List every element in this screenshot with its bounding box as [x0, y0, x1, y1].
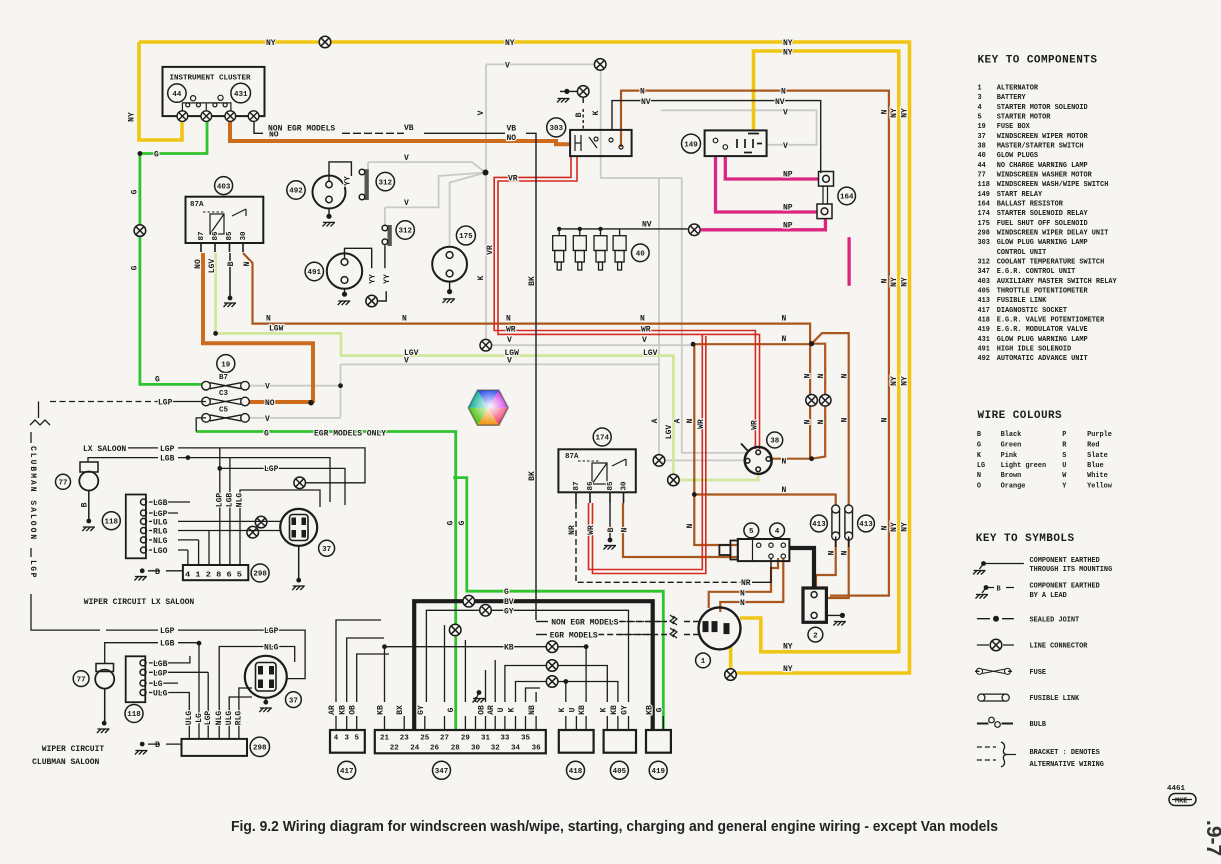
svg-text:N: N	[740, 589, 745, 598]
svg-text:LINE CONNECTOR: LINE CONNECTOR	[1030, 643, 1089, 651]
svg-text:G: G	[131, 189, 140, 194]
svg-text:STARTER MOTOR: STARTER MOTOR	[997, 114, 1052, 122]
svg-text:NY: NY	[783, 643, 793, 652]
svg-text:NY: NY	[128, 112, 137, 122]
svg-text:K: K	[477, 275, 486, 280]
svg-text:KB: KB	[610, 705, 619, 715]
svg-text:LGB: LGB	[226, 493, 235, 508]
svg-text:33: 33	[500, 735, 510, 743]
svg-text:174: 174	[595, 435, 609, 443]
svg-text:LGB: LGB	[153, 660, 168, 669]
svg-text:23: 23	[400, 735, 410, 743]
svg-text:LGB: LGB	[160, 640, 175, 649]
svg-text:BK: BK	[528, 471, 537, 481]
svg-text:GLOW PLUGS: GLOW PLUGS	[997, 152, 1038, 160]
svg-text:NR: NR	[741, 579, 751, 588]
svg-text:B: B	[977, 431, 981, 439]
svg-text:NLG: NLG	[264, 644, 279, 653]
svg-text:LGP: LGP	[264, 627, 279, 636]
svg-text:347: 347	[978, 268, 990, 276]
svg-text:22: 22	[390, 745, 400, 753]
svg-text:G: G	[447, 520, 456, 525]
svg-text:N: N	[782, 457, 787, 466]
svg-text:NY: NY	[901, 108, 910, 118]
svg-text:B: B	[81, 502, 90, 507]
svg-text:175: 175	[459, 233, 473, 241]
svg-text:V: V	[404, 199, 409, 208]
svg-text:C5: C5	[219, 407, 229, 415]
svg-text:N: N	[841, 373, 850, 378]
svg-text:303: 303	[549, 125, 563, 133]
svg-text:26: 26	[430, 745, 440, 753]
svg-text:VB: VB	[404, 124, 414, 133]
svg-text:AUXILIARY MASTER SWITCH RELAY: AUXILIARY MASTER SWITCH RELAY	[997, 278, 1118, 286]
svg-text:1: 1	[701, 658, 706, 666]
svg-text:G: G	[154, 151, 159, 160]
svg-text:NO: NO	[194, 259, 203, 269]
svg-text:N: N	[686, 418, 695, 423]
svg-text:Red: Red	[1087, 441, 1099, 449]
svg-text:N: N	[621, 527, 630, 532]
svg-text:N: N	[686, 523, 695, 528]
svg-text:NY: NY	[783, 665, 793, 674]
svg-text:Fig. 9.2 Wiring diagram for w: Fig. 9.2 Wiring diagram for windscreen w…	[231, 819, 998, 835]
svg-text:NV: NV	[642, 221, 652, 230]
svg-text:Purple: Purple	[1087, 431, 1112, 439]
svg-text:LGP: LGP	[28, 560, 37, 579]
svg-text:40: 40	[978, 152, 986, 160]
svg-text:AR: AR	[328, 705, 337, 715]
svg-text:85: 85	[607, 481, 615, 491]
svg-text:VR: VR	[486, 245, 495, 255]
svg-text:87A: 87A	[565, 453, 579, 461]
svg-text:NY: NY	[783, 39, 793, 48]
svg-text:KB: KB	[504, 644, 514, 653]
svg-text:Slate: Slate	[1087, 452, 1108, 460]
svg-text:YY: YY	[343, 176, 352, 186]
svg-text:.9-7: .9-7	[1202, 820, 1221, 856]
svg-text:V: V	[507, 357, 512, 366]
svg-text:FUSIBLE LINK: FUSIBLE LINK	[997, 297, 1047, 305]
svg-text:N: N	[804, 419, 813, 424]
svg-text:B: B	[155, 741, 160, 750]
svg-text:AR: AR	[487, 705, 496, 715]
svg-text:164: 164	[978, 201, 990, 209]
svg-text:CLUBMAN SALOON: CLUBMAN SALOON	[28, 446, 37, 541]
svg-text:419: 419	[651, 768, 665, 776]
svg-text:KB: KB	[377, 705, 386, 715]
svg-text:K: K	[599, 707, 608, 712]
svg-text:149: 149	[684, 141, 698, 149]
svg-text:THROUGH ITS MOUNTING: THROUGH ITS MOUNTING	[1030, 566, 1113, 574]
svg-text:NV: NV	[775, 98, 785, 107]
svg-text:A: A	[674, 418, 683, 423]
svg-text:YY: YY	[383, 274, 392, 284]
svg-text:25: 25	[420, 735, 430, 743]
svg-text:5: 5	[978, 114, 982, 122]
svg-text:431: 431	[234, 91, 248, 99]
svg-text:G: G	[504, 588, 509, 597]
svg-text:LGV: LGV	[665, 425, 674, 440]
svg-text:HIGH IDLE SOLENOID: HIGH IDLE SOLENOID	[997, 346, 1071, 354]
svg-text:312: 312	[978, 259, 990, 267]
svg-text:491: 491	[978, 346, 990, 354]
svg-text:LGO: LGO	[153, 547, 168, 556]
svg-text:405: 405	[978, 288, 990, 296]
svg-text:413: 413	[859, 521, 873, 529]
svg-text:Blue: Blue	[1087, 462, 1104, 470]
svg-text:WINDSCREEN WASHER MOTOR: WINDSCREEN WASHER MOTOR	[997, 172, 1093, 180]
svg-text:NV: NV	[641, 98, 651, 107]
svg-text:NP: NP	[783, 171, 793, 180]
svg-text:2: 2	[813, 632, 818, 640]
svg-text:CLUBMAN SALOON: CLUBMAN SALOON	[32, 758, 99, 767]
svg-text:GY: GY	[621, 705, 630, 715]
svg-text:NB: NB	[528, 705, 537, 715]
svg-text:37: 37	[322, 546, 331, 554]
svg-text:ULG: ULG	[185, 711, 194, 726]
svg-text:ALTERNATIVE WIRING: ALTERNATIVE WIRING	[1030, 761, 1104, 769]
svg-text:27: 27	[440, 735, 449, 743]
svg-text:NY: NY	[266, 39, 276, 48]
svg-text:WINDSCREEN WIPER MOTOR: WINDSCREEN WIPER MOTOR	[997, 133, 1089, 141]
svg-text:V: V	[783, 109, 788, 118]
svg-text:431: 431	[978, 336, 990, 344]
svg-text:85: 85	[226, 231, 234, 241]
svg-text:BULB: BULB	[1030, 721, 1047, 729]
svg-text:WR: WR	[641, 326, 651, 335]
svg-text:312: 312	[379, 179, 393, 187]
svg-text:NON EGR MODELS: NON EGR MODELS	[551, 619, 618, 628]
svg-text:40: 40	[636, 251, 646, 259]
svg-text:175: 175	[978, 220, 990, 228]
svg-text:DIAGNOSTIC SOCKET: DIAGNOSTIC SOCKET	[997, 307, 1067, 315]
svg-text:V: V	[265, 383, 270, 392]
svg-text:COOLANT TEMPERATURE SWITCH: COOLANT TEMPERATURE SWITCH	[997, 259, 1105, 267]
svg-text:N: N	[880, 525, 889, 530]
svg-text:LG: LG	[153, 680, 163, 689]
svg-text:GLOW PLUG WARNING LAMP: GLOW PLUG WARNING LAMP	[997, 239, 1088, 247]
svg-text:NY: NY	[890, 277, 899, 287]
svg-text:19: 19	[221, 361, 231, 369]
svg-text:298: 298	[253, 571, 267, 579]
svg-text:VB: VB	[507, 125, 517, 134]
svg-text:N: N	[402, 315, 407, 324]
svg-text:KEY TO COMPONENTS: KEY TO COMPONENTS	[978, 55, 1098, 67]
svg-text:STARTER SOLENOID RELAY: STARTER SOLENOID RELAY	[997, 210, 1089, 218]
svg-text:B: B	[997, 585, 1001, 593]
svg-text:KEY TO SYMBOLS: KEY TO SYMBOLS	[976, 533, 1075, 545]
svg-text:413: 413	[812, 521, 826, 529]
svg-text:AUTOMATIC ADVANCE UNIT: AUTOMATIC ADVANCE UNIT	[997, 355, 1088, 363]
svg-text:21: 21	[380, 735, 390, 743]
svg-text:N: N	[880, 417, 889, 422]
svg-text:NO CHARGE WARNING LAMP: NO CHARGE WARNING LAMP	[997, 162, 1088, 170]
svg-text:86: 86	[212, 231, 220, 241]
svg-text:5: 5	[354, 735, 359, 743]
svg-text:87: 87	[573, 481, 581, 490]
svg-text:U: U	[568, 707, 577, 712]
svg-text:1: 1	[978, 85, 982, 93]
svg-text:Orange: Orange	[1001, 483, 1026, 491]
svg-text:NY: NY	[505, 39, 515, 48]
svg-text:V: V	[404, 357, 409, 366]
svg-text:ALTERNATOR: ALTERNATOR	[997, 85, 1039, 93]
svg-text:U: U	[497, 707, 506, 712]
svg-text:418: 418	[978, 317, 990, 325]
svg-text:NON EGR MODELS: NON EGR MODELS	[268, 125, 335, 134]
svg-text:N: N	[817, 373, 826, 378]
svg-text:OB: OB	[478, 705, 487, 715]
svg-text:LGB: LGB	[160, 455, 175, 464]
svg-text:LGP: LGP	[160, 445, 175, 454]
svg-text:19: 19	[978, 123, 986, 131]
svg-text:FUSE: FUSE	[1030, 669, 1047, 677]
svg-text:491: 491	[308, 269, 322, 277]
svg-text:347: 347	[435, 768, 449, 776]
svg-text:118: 118	[127, 711, 141, 719]
svg-text:NLG: NLG	[215, 711, 224, 726]
svg-text:V: V	[783, 142, 788, 151]
svg-text:NP: NP	[783, 204, 793, 213]
svg-text:WR: WR	[587, 525, 596, 535]
svg-text:N: N	[266, 315, 271, 324]
svg-text:MASTER/STARTER SWITCH: MASTER/STARTER SWITCH	[997, 143, 1084, 151]
svg-text:118: 118	[105, 518, 119, 526]
svg-text:37: 37	[978, 133, 986, 141]
svg-text:WR: WR	[751, 420, 760, 430]
svg-text:BATTERY: BATTERY	[997, 94, 1027, 102]
svg-text:4461: 4461	[1167, 785, 1186, 793]
svg-text:KB: KB	[646, 705, 655, 715]
svg-text:4 1 2 8 6 5: 4 1 2 8 6 5	[185, 572, 243, 580]
svg-text:N: N	[841, 417, 850, 422]
svg-text:4: 4	[978, 104, 982, 112]
svg-text:WR: WR	[506, 326, 516, 335]
svg-text:KB: KB	[578, 705, 587, 715]
svg-text:V: V	[642, 336, 647, 345]
svg-text:77: 77	[978, 172, 986, 180]
svg-text:38: 38	[770, 438, 780, 446]
svg-text:NY: NY	[901, 522, 910, 532]
svg-text:FUSE BOX: FUSE BOX	[997, 123, 1031, 131]
svg-text:EGR MODELS: EGR MODELS	[550, 632, 598, 641]
svg-text:77: 77	[77, 676, 86, 684]
svg-text:V: V	[507, 336, 512, 345]
svg-text:Light green: Light green	[1001, 462, 1047, 470]
svg-text:NY: NY	[890, 108, 899, 118]
svg-text:O: O	[977, 483, 981, 491]
svg-text:Black: Black	[1001, 431, 1022, 439]
svg-text:BY A LEAD: BY A LEAD	[1030, 592, 1067, 600]
svg-text:GY: GY	[417, 705, 426, 715]
svg-text:30: 30	[240, 231, 248, 241]
svg-text:77: 77	[58, 480, 67, 488]
svg-text:ULG: ULG	[153, 690, 168, 699]
svg-text:EGR MODELS ONLY: EGR MODELS ONLY	[314, 430, 386, 439]
svg-text:NLG: NLG	[236, 493, 245, 508]
svg-text:NY: NY	[890, 522, 899, 532]
svg-text:START RELAY: START RELAY	[997, 191, 1043, 199]
svg-text:E.G.R. VALVE POTENTIOMETER: E.G.R. VALVE POTENTIOMETER	[997, 317, 1105, 325]
svg-text:29: 29	[461, 735, 471, 743]
svg-text:N: N	[640, 88, 645, 97]
svg-text:35: 35	[521, 735, 531, 743]
svg-text:BV: BV	[504, 598, 514, 607]
svg-text:N: N	[977, 472, 981, 480]
svg-text:C3: C3	[219, 390, 229, 398]
svg-text:BRACKET : DENOTES: BRACKET : DENOTES	[1030, 749, 1100, 757]
svg-text:G: G	[264, 430, 269, 439]
svg-text:174: 174	[978, 210, 990, 218]
svg-text:INSTRUMENT CLUSTER: INSTRUMENT CLUSTER	[170, 74, 252, 82]
svg-text:405: 405	[613, 768, 627, 776]
svg-text:G: G	[447, 707, 456, 712]
svg-text:CONTROL UNIT: CONTROL UNIT	[997, 249, 1047, 257]
svg-text:OB: OB	[349, 705, 358, 715]
svg-text:WIPER CIRCUIT LX SALOON: WIPER CIRCUIT LX SALOON	[84, 598, 195, 607]
svg-text:NO: NO	[265, 399, 275, 408]
svg-text:B7: B7	[219, 374, 228, 382]
svg-text:BALLAST RESISTOR: BALLAST RESISTOR	[997, 201, 1064, 209]
svg-text:N: N	[817, 419, 826, 424]
svg-text:G: G	[977, 441, 981, 449]
svg-text:LGP: LGP	[204, 711, 213, 726]
svg-text:WINDSCREEN WIPER DELAY UNIT: WINDSCREEN WIPER DELAY UNIT	[997, 230, 1109, 238]
svg-text:3: 3	[978, 94, 982, 102]
svg-text:BK: BK	[528, 276, 537, 286]
svg-text:118: 118	[978, 181, 990, 189]
svg-text:E.G.R. CONTROL UNIT: E.G.R. CONTROL UNIT	[997, 268, 1076, 276]
svg-text:LGB: LGB	[153, 499, 168, 508]
svg-text:LGP: LGP	[158, 399, 173, 408]
svg-text:E.G.R. MODULATOR VALVE: E.G.R. MODULATOR VALVE	[997, 326, 1088, 334]
svg-text:NY: NY	[901, 376, 910, 386]
svg-text:149: 149	[978, 191, 990, 199]
svg-text:COMPONENT EARTHED: COMPONENT EARTHED	[1030, 557, 1100, 565]
svg-text:Yellow: Yellow	[1087, 483, 1113, 491]
svg-text:SEALED JOINT: SEALED JOINT	[1030, 616, 1080, 624]
svg-text:THROTTLE POTENTIOMETER: THROTTLE POTENTIOMETER	[997, 288, 1089, 296]
svg-text:298: 298	[253, 745, 267, 753]
svg-text:N: N	[782, 335, 787, 344]
svg-text:LGP: LGP	[153, 669, 168, 678]
svg-text:NY: NY	[901, 277, 910, 287]
svg-text:87A: 87A	[190, 201, 204, 209]
svg-text:VR: VR	[508, 175, 518, 184]
svg-text:3: 3	[344, 735, 349, 743]
svg-text:312: 312	[398, 228, 412, 236]
svg-text:N: N	[506, 315, 511, 324]
svg-text:G: G	[458, 520, 467, 525]
svg-text:164: 164	[840, 194, 854, 202]
svg-text:403: 403	[217, 183, 231, 191]
svg-text:Pink: Pink	[1001, 452, 1018, 460]
svg-text:N: N	[243, 261, 252, 266]
svg-text:LG: LG	[977, 462, 985, 470]
svg-text:303: 303	[978, 239, 990, 247]
svg-text:WIRE COLOURS: WIRE COLOURS	[978, 410, 1063, 422]
svg-text:KB: KB	[339, 705, 348, 715]
svg-text:NY: NY	[783, 49, 793, 58]
svg-text:492: 492	[978, 355, 990, 363]
svg-text:RLG: RLG	[235, 711, 244, 726]
svg-text:White: White	[1087, 472, 1108, 480]
svg-text:N: N	[841, 550, 850, 555]
svg-text:N: N	[828, 550, 837, 555]
svg-text:B: B	[155, 568, 160, 577]
svg-text:28: 28	[451, 745, 461, 753]
svg-text:STARTER MOTOR SOLENOID: STARTER MOTOR SOLENOID	[997, 104, 1088, 112]
svg-text:44: 44	[172, 91, 182, 99]
svg-text:N: N	[781, 88, 786, 97]
svg-text:LGW: LGW	[269, 325, 284, 334]
svg-text:38: 38	[978, 143, 986, 151]
svg-text:36: 36	[532, 745, 542, 753]
svg-text:LX SALOON: LX SALOON	[83, 445, 126, 454]
svg-text:ULG: ULG	[153, 518, 168, 527]
svg-text:GLOW PLUG WARNING LAMP: GLOW PLUG WARNING LAMP	[997, 336, 1088, 344]
svg-text:K: K	[558, 707, 567, 712]
svg-text:N: N	[740, 599, 745, 608]
svg-text:NR: NR	[568, 525, 577, 535]
svg-text:N: N	[880, 109, 889, 114]
svg-text:GY: GY	[504, 607, 514, 616]
svg-text:24: 24	[410, 745, 420, 753]
svg-text:LG: LG	[195, 713, 204, 723]
svg-text:298: 298	[978, 230, 990, 238]
svg-text:WINDSCREEN WASH/WIPE SWITCH: WINDSCREEN WASH/WIPE SWITCH	[997, 181, 1109, 189]
svg-text:417: 417	[340, 768, 354, 776]
svg-text:403: 403	[978, 278, 990, 286]
svg-text:34: 34	[511, 745, 521, 753]
svg-text:419: 419	[978, 326, 990, 334]
svg-text:413: 413	[978, 297, 990, 305]
svg-text:30: 30	[471, 745, 481, 753]
svg-text:V: V	[404, 154, 409, 163]
svg-text:Brown: Brown	[1001, 472, 1022, 480]
svg-text:NP: NP	[783, 222, 793, 231]
svg-text:30: 30	[621, 481, 629, 491]
svg-text:S: S	[1062, 452, 1066, 460]
svg-text:G: G	[131, 265, 140, 270]
svg-text:5: 5	[749, 528, 754, 536]
svg-text:87: 87	[198, 231, 206, 240]
svg-text:LGP: LGP	[264, 465, 279, 474]
svg-text:RLG: RLG	[153, 527, 168, 536]
svg-text:N: N	[804, 373, 813, 378]
svg-text:LGV: LGV	[208, 259, 217, 274]
svg-text:B: B	[227, 261, 236, 266]
svg-text:G: G	[155, 376, 160, 385]
svg-text:Green: Green	[1001, 441, 1022, 449]
svg-text:MKE: MKE	[1175, 798, 1187, 806]
svg-text:N: N	[640, 315, 645, 324]
svg-text:86: 86	[587, 481, 595, 491]
svg-text:LGV: LGV	[643, 349, 658, 358]
svg-text:BX: BX	[396, 705, 405, 715]
svg-text:V: V	[265, 415, 270, 424]
svg-text:P: P	[1062, 431, 1066, 439]
svg-text:FUEL SHUT OFF SOLENOID: FUEL SHUT OFF SOLENOID	[997, 220, 1088, 228]
svg-text:4: 4	[334, 735, 339, 743]
svg-text:G: G	[655, 707, 664, 712]
svg-text:31: 31	[481, 735, 491, 743]
svg-text:YY: YY	[369, 274, 378, 284]
svg-text:B: B	[607, 527, 616, 532]
svg-text:WR: WR	[697, 419, 706, 429]
svg-text:FUSIBLE LINK: FUSIBLE LINK	[1030, 695, 1080, 703]
